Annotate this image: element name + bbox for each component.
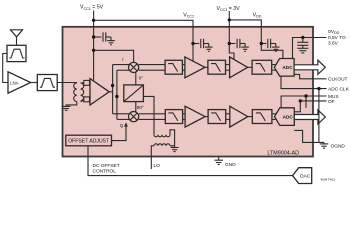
junction VCC3 rail [228,18,231,21]
capacitor C5 bypass OVDD [297,38,308,49]
wire CLKOUT [294,74,326,78]
op-amp A5 Q baseband amp2 [230,106,248,127]
wire A2 to F4 [205,66,208,68]
node VCC1 supply wire [93,11,95,82]
ADC U2 I-channel [274,59,294,77]
wire OGND [294,130,324,142]
svg-text:ADC: ADC [282,65,293,70]
svg-text:0°: 0° [139,75,144,80]
capacitor C4 bypass VDD [261,39,276,48]
wire DC offset control [88,146,293,176]
block B1 OFFSET ADJUST [66,135,112,146]
capacitor C3 bypass VCC3 [229,39,245,48]
wire F7 to A5 [226,114,230,120]
filter F7 lowpass Q [208,110,226,124]
svg-text:ADC: ADC [283,115,294,120]
capacitor C2 bypass VCC2 [193,39,209,48]
svg-text:OF: OF [328,99,335,105]
junction dots [92,18,321,102]
wire A1 output to node V1 [109,91,112,93]
wire LO input to PS1 [143,96,154,134]
junction VCC2 bypass [191,42,194,45]
wire OF [294,101,326,112]
svg-text:9004 TA01: 9004 TA01 [321,178,336,182]
wire PS1 90deg to M2 [135,102,137,112]
svg-text:LO: LO [154,163,161,169]
svg-text:I: I [122,57,123,62]
node VCC3 supply wire [229,11,234,60]
wire ADC CLK to OGND rail [318,89,320,143]
junction VCC1 bypass [92,35,95,38]
svg-text:DC OFFSET: DC OFFSET [93,163,120,169]
ground for T1 primary [62,106,71,110]
svg-text:GND: GND [225,162,236,168]
module LTM9004-AD outline [63,27,314,157]
wire F8 to ADC U3 [272,114,278,120]
wire LNA to F2 [31,82,38,84]
filter F1 bandpass [7,45,26,61]
ground for C5 [297,48,308,53]
input coupling stub lower [84,97,90,102]
svg-text:OGND: OGND [331,144,346,150]
wire node V2 vertical [116,70,118,119]
filter F6 lowpass Q [165,110,182,124]
phase shifter PS1 0/90 [124,85,144,102]
svg-text:OFFSET ADJUST: OFFSET ADJUST [68,139,109,145]
junction V2 [115,95,118,98]
filter F4 lowpass I [208,60,226,74]
svg-text:LNA: LNA [10,81,19,86]
antenna ANT1 [11,30,23,46]
wire F3 to A2 [182,65,185,71]
wire 3V rail VCC3 to VDD [229,20,283,59]
ground for C2 [205,44,213,52]
ground for C4 [272,44,280,52]
wire F4 to A3 [226,65,230,71]
op-amp A2 I baseband amp1 [185,57,205,78]
ground for C3 [241,44,249,52]
wire M2 to F6 lower [139,118,166,120]
mixer M2 Q-channel [129,112,139,122]
wire node V1 vertical [112,65,114,114]
op-amp A3 I baseband amp2 [230,57,248,78]
svg-text:ADC CLK: ADC CLK [328,87,350,93]
arrowhead offset adjust into M2 [124,122,128,126]
junction OVDD [301,36,304,39]
wire PS1 0deg to M1 [135,73,137,85]
filter F2 bandpass [37,75,57,91]
wire V2 to mixer M2 [117,118,130,120]
ground for T2 [171,148,179,152]
op-amp A4 Q baseband amp1 [185,106,205,127]
junction VCC3 bypass [228,42,231,45]
svg-text:3.6V: 3.6V [328,41,339,47]
wire A3 to F5 [248,66,253,68]
wire V1 to mixer M1 [113,64,130,66]
wire A4 to F7 [205,116,208,118]
LNA U1 [8,72,31,93]
mixer M1 I-channel [129,62,139,72]
junction VDD bypass [260,42,263,45]
wire MUX branch [305,96,307,108]
ground for C1 [107,37,115,45]
junction VCC1 rail [92,19,95,22]
filter F5 lowpass I [252,60,272,74]
capacitor C1 bypass VCC1 [94,32,111,41]
svg-text:DAC: DAC [300,174,311,180]
transformer T2 LO balun [151,130,174,169]
filter F3 lowpass I [165,60,182,74]
wire M2 to F6 upper [139,113,166,115]
wire V2 to mixer M1 [117,69,130,71]
transformer T1 RF balun [66,83,84,107]
wire ADC CLK [281,76,327,89]
wire F1 to LNA [3,54,8,83]
wire F5 to ADC U2 [272,65,278,71]
ADC U3 Q-channel [275,108,295,126]
svg-text:CONTROL: CONTROL [93,169,117,175]
svg-text:Q: Q [120,123,124,128]
output bus arrow Q [294,110,325,124]
wire F2 to balun T1 [57,82,77,84]
wire M1 to F3 upper [139,64,165,66]
wire VCC1 branch to mixer M1 [94,50,134,62]
wire A5 to F8 [248,116,253,118]
junction VCC1 mixer branch [92,49,95,52]
wire F6 to A4 [183,114,186,120]
wire offset adjust to M2 arrow [112,126,126,141]
filter F8 lowpass Q [252,110,272,124]
wire V1 to mixer M2 [113,113,130,115]
svg-text:LTM9004-AD: LTM9004-AD [267,150,299,156]
output bus arrow I [294,60,325,74]
junction ADC CLK [317,87,320,90]
svg-text:CLKOUT: CLKOUT [328,77,348,83]
svg-text:0.5V TO: 0.5V TO [328,35,346,41]
wire MUX [281,96,326,108]
wire 5V rail VCC1 to VCC2 [94,20,193,61]
ground GND bottom [214,157,223,165]
ground OGND [320,142,329,148]
junction MUX [304,94,307,97]
junction OF [299,99,302,102]
DAC U4 [293,168,312,184]
op-amp A1 RF amplifier [90,79,109,105]
node OVDD wire [293,38,327,59]
svg-text:90°: 90° [137,105,144,110]
input coupling stub upper [84,80,90,85]
junction V1 [111,84,114,87]
wire M1 to F3 lower [139,69,165,71]
